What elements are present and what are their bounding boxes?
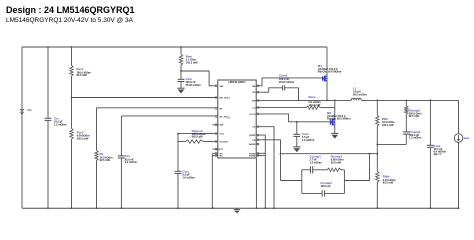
svg-text:Cvin: Cvin <box>186 77 192 81</box>
svg-text:VCC: VCC <box>220 134 225 136</box>
svg-text:COMP: COMP <box>249 135 256 137</box>
svg-text:Rsv1: Rsv1 <box>77 67 84 71</box>
svg-text:CS: CS <box>252 127 256 129</box>
svg-text:Ccomp1: Ccomp1 <box>310 154 322 158</box>
svg-text:Cin: Cin <box>54 116 59 120</box>
svg-text:LO: LO <box>252 108 255 110</box>
svg-text:Css: Css <box>125 154 131 158</box>
svg-text:Rt: Rt <box>100 152 103 156</box>
svg-text:Ccomp2: Ccomp2 <box>320 181 332 185</box>
svg-text:PGND: PGND <box>249 156 256 158</box>
svg-text:VIN: VIN <box>220 86 224 88</box>
svg-text:Rfbt: Rfbt <box>382 117 388 121</box>
svg-text:Rcomp2: Rcomp2 <box>409 108 421 112</box>
svg-text:Rfbb: Rfbb <box>383 175 390 179</box>
svg-text:Rpgood: Rpgood <box>192 129 203 133</box>
svg-text:SS_TM: SS_TM <box>220 117 227 119</box>
svg-text:Cout: Cout <box>434 144 441 148</box>
svg-text:Rsns: Rsns <box>309 95 316 99</box>
svg-text:M1: M1 <box>318 64 322 68</box>
svg-text:Rsv2: Rsv2 <box>77 130 84 134</box>
svg-text:PGND: PGND <box>249 153 256 155</box>
svg-text:HB: HB <box>252 86 256 88</box>
svg-text:EN_UVLO: EN_UVLO <box>220 98 231 100</box>
svg-text:L1: L1 <box>353 87 357 91</box>
svg-text:NC: NC <box>220 153 224 155</box>
svg-text:Vin: Vin <box>27 108 32 112</box>
svg-text:Rvin: Rvin <box>186 54 192 58</box>
svg-text:SYNCOUT: SYNCOUT <box>212 149 223 151</box>
svg-text:Iout: Iout <box>464 136 469 140</box>
svg-text:PGOOD: PGOOD <box>220 142 229 144</box>
svg-text:Cboot: Cboot <box>279 74 287 78</box>
svg-text:NC: NC <box>220 156 224 158</box>
svg-text:M2: M2 <box>327 111 331 115</box>
svg-text:Rcomp1: Rcomp1 <box>331 154 343 158</box>
svg-text:VCCX: VCCX <box>249 114 256 116</box>
svg-text:HO: HO <box>252 92 256 94</box>
svg-text:Cvcc: Cvcc <box>302 132 309 136</box>
svg-text:Ccomp3: Ccomp3 <box>409 130 421 134</box>
svg-text:Cvcc: Cvcc <box>182 169 189 173</box>
svg-text:FB: FB <box>252 140 255 142</box>
